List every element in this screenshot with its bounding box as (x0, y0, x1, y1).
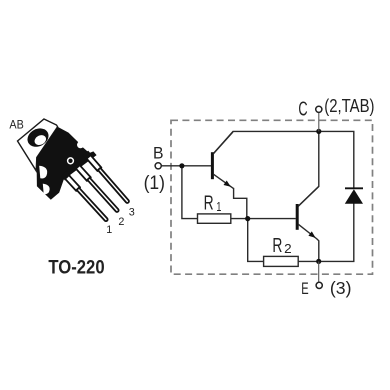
Q1 collector diagonal (213, 132, 233, 154)
svg-text:R: R (272, 235, 282, 257)
wire: Q1 collector to top rail (213, 131, 353, 189)
svg-text:(3): (3) (330, 278, 352, 298)
dashed outline box (171, 120, 373, 274)
leg stubs (black) (64, 153, 90, 178)
body detail: side-face notches (39, 166, 47, 179)
tab hole (24, 125, 51, 151)
svg-text:1: 1 (216, 199, 221, 214)
svg-text:2: 2 (284, 241, 292, 256)
wire: Q1 emitter staircase to R1 node (234, 188, 247, 219)
svg-text:TO-220: TO-220 (48, 258, 104, 279)
svg-text:(2,TAB): (2,TAB) (324, 96, 374, 116)
svg-text:2: 2 (118, 216, 124, 228)
svg-text:1: 1 (106, 224, 112, 236)
pin 3 leg (87, 155, 129, 203)
wire: base node down to R1 left (182, 166, 198, 219)
terminal E lead (318, 261, 320, 282)
terminal C lead (318, 113, 320, 132)
pin 1 leg (65, 175, 108, 221)
node: R1/Q2 base junction (245, 216, 250, 221)
resistor R1 (198, 214, 231, 223)
node: B junction (179, 163, 184, 168)
svg-text:AB: AB (9, 118, 24, 132)
svg-text:E: E (301, 279, 308, 298)
svg-text:B: B (153, 144, 164, 163)
diode (345, 188, 363, 204)
terminal C circle (316, 106, 322, 112)
Q1 base bar (211, 152, 214, 179)
wire: R1 right to Q2 base (231, 218, 296, 220)
terminal B circle (155, 163, 161, 169)
pin 2 leg (76, 165, 119, 212)
svg-text:(1): (1) (144, 173, 165, 194)
svg-text:R: R (204, 192, 214, 214)
body detail: white circle on front face (68, 158, 74, 164)
node: collector rail junction (316, 129, 321, 134)
transistor Q1 (212, 132, 233, 189)
Q1 emitter diagonal with arrow (213, 174, 233, 188)
svg-text:C: C (298, 98, 307, 121)
mounting tab (metal, with hole) (18, 119, 58, 171)
Q2 base bar (296, 204, 299, 230)
Q2 collector diagonal (298, 186, 319, 206)
wire: Q2 emitter down to E node (317, 239, 319, 262)
terminal E circle (316, 282, 322, 288)
transistor Q2 (297, 186, 319, 239)
resistor R2 (264, 256, 299, 266)
node: emitter rail junction (316, 259, 321, 264)
Q2 emitter diagonal with arrow (298, 224, 317, 239)
body (black plastic) (37, 127, 97, 200)
wire: node down to R2 left (248, 219, 264, 262)
svg-text:3: 3 (129, 206, 135, 218)
wire: Q2 collector up to rail (298, 131, 319, 206)
wire: R2 right to diode bottom (298, 204, 354, 262)
wire: B terminal to Q1 base (161, 165, 211, 167)
